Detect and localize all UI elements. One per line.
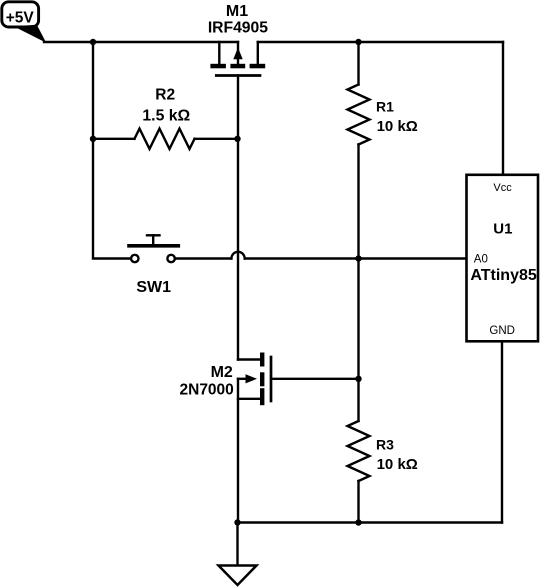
wire R1 bottom to A0 node [357,145,359,259]
wire ground stub below rail [236,523,238,566]
wire M1 gate down to M2 drain (passes R2 junction and SW1 hop) [237,76,239,360]
wire A0 node down to M2 gate node [357,259,359,379]
svg-text:IRF4905: IRF4905 [208,20,268,37]
node junction at A0 wire / R1 column [355,255,361,261]
wire M1 drain to top-right corner [258,41,503,43]
wire +5V to M1 source (top rail left) [44,41,238,43]
node junction at R2 left [90,136,96,142]
M1 gate plate [216,74,260,77]
resistor R2 [135,86,195,149]
switch SW1 (pushbutton) [129,235,178,295]
M2 channel bars [260,353,264,367]
wire R2 right lead [195,138,238,140]
node junction at top rail / R1 [355,39,361,45]
wire M2 gate node down to R3 top [357,379,359,421]
wire M2 gate to R1/R3 node [271,378,359,380]
M2 source stub [238,398,260,400]
M2 drain stub [238,358,260,360]
wire SW1 to A0 with hop over gate line [175,252,467,259]
M1 channel bars [210,64,226,69]
svg-text:1.5 kΩ: 1.5 kΩ [142,107,190,124]
M2 body arrow stub [238,378,250,380]
+5V supply flag [2,2,46,43]
svg-text:R2: R2 [155,86,175,103]
svg-text:10 kΩ: 10 kΩ [377,118,418,135]
svg-text:ATtiny85: ATtiny85 [470,267,536,284]
node junction at +5V rail / left column [90,39,96,45]
svg-text:A0: A0 [474,254,488,266]
svg-text:2N7000: 2N7000 [180,382,234,399]
wire top-right corner down to U1 Vcc [502,42,504,175]
resistor R3 [348,421,418,481]
node junction at M2 gate / R1-R3 column [355,376,361,382]
svg-text:R1: R1 [376,99,394,115]
svg-text:+5V: +5V [6,10,35,27]
svg-text:R3: R3 [376,436,394,452]
svg-text:U1: U1 [493,220,512,237]
mosfet M2 (N-channel 2N7000) [180,353,271,406]
M2 gate plate [270,357,273,401]
M1 drain stub right [257,42,259,64]
wire bottom ground rail [238,521,503,523]
IC U1 ATtiny85 [467,175,539,341]
svg-text:M2: M2 [211,364,233,381]
wire M2 source down to ground rail [237,379,239,523]
wire R2 left lead [93,138,135,140]
wire R3 bottom to ground rail [357,481,359,523]
svg-text:M1: M1 [226,3,248,20]
ground [219,566,257,586]
node junction at ground rail left [234,519,240,525]
node junction at R2 right / gate column [234,136,240,142]
mosfet M1 (P-channel IRF4905) [208,3,268,76]
wire R1 top lead from top rail [357,42,359,85]
svg-text:SW1: SW1 [136,279,171,296]
wire left column from +5V rail down to SW1 [93,42,131,259]
resistor R1 [348,85,418,145]
wire ground rail up to U1 GND [501,342,503,523]
svg-text:10 kΩ: 10 kΩ [377,456,418,473]
svg-text:Vcc: Vcc [493,182,512,194]
M1 source stub left [218,42,220,64]
svg-text:GND: GND [489,325,515,337]
node junction at ground rail / R3 [355,519,361,525]
M1 body stub with arrow [237,42,239,64]
